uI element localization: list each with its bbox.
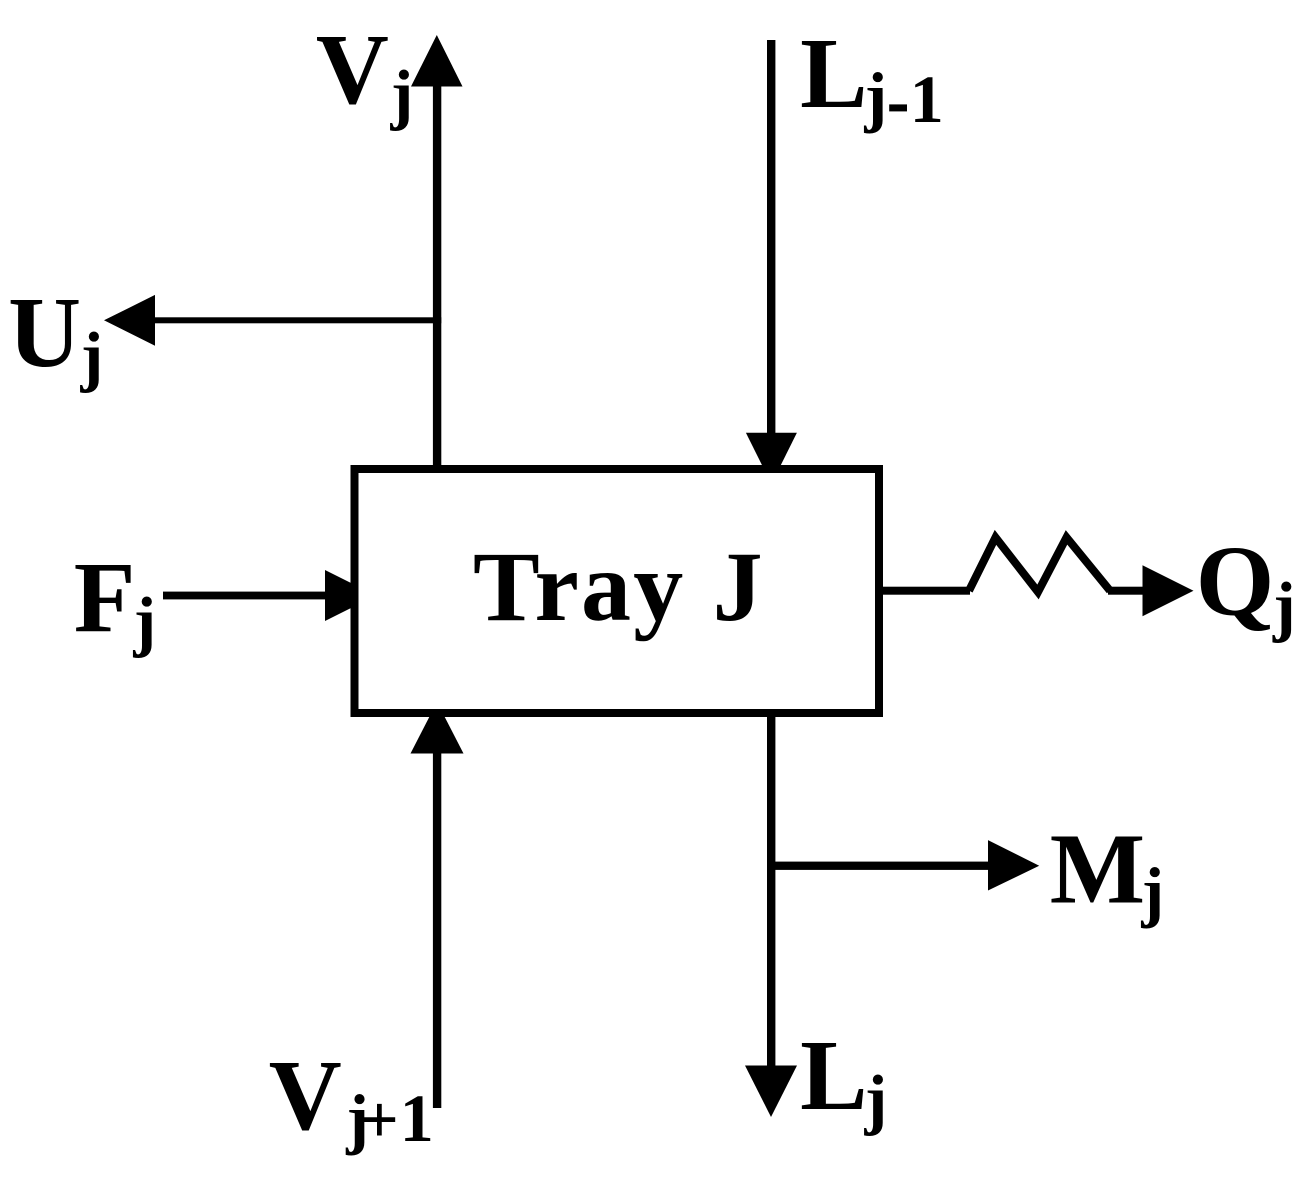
svg-text:1: 1 (400, 1080, 434, 1156)
svg-text:L: L (800, 17, 867, 129)
svg-text:V: V (269, 1039, 342, 1151)
svg-text:1: 1 (910, 61, 944, 137)
svg-text:V: V (316, 13, 389, 125)
svg-text:L: L (800, 1019, 867, 1131)
svg-text:+: + (360, 1081, 399, 1157)
svg-text:j: j (80, 318, 104, 394)
svg-text:Tray J: Tray J (473, 531, 765, 642)
svg-text:j: j (864, 1060, 888, 1136)
svg-text:j: j (390, 56, 414, 132)
svg-text:j: j (1141, 853, 1165, 929)
svg-text:j: j (133, 583, 157, 659)
svg-text:F: F (74, 541, 136, 653)
svg-text:j: j (864, 58, 888, 134)
svg-text:U: U (8, 276, 81, 388)
svg-text:Q: Q (1196, 525, 1275, 637)
svg-text:j: j (1272, 568, 1296, 644)
svg-text:M: M (1050, 813, 1145, 925)
